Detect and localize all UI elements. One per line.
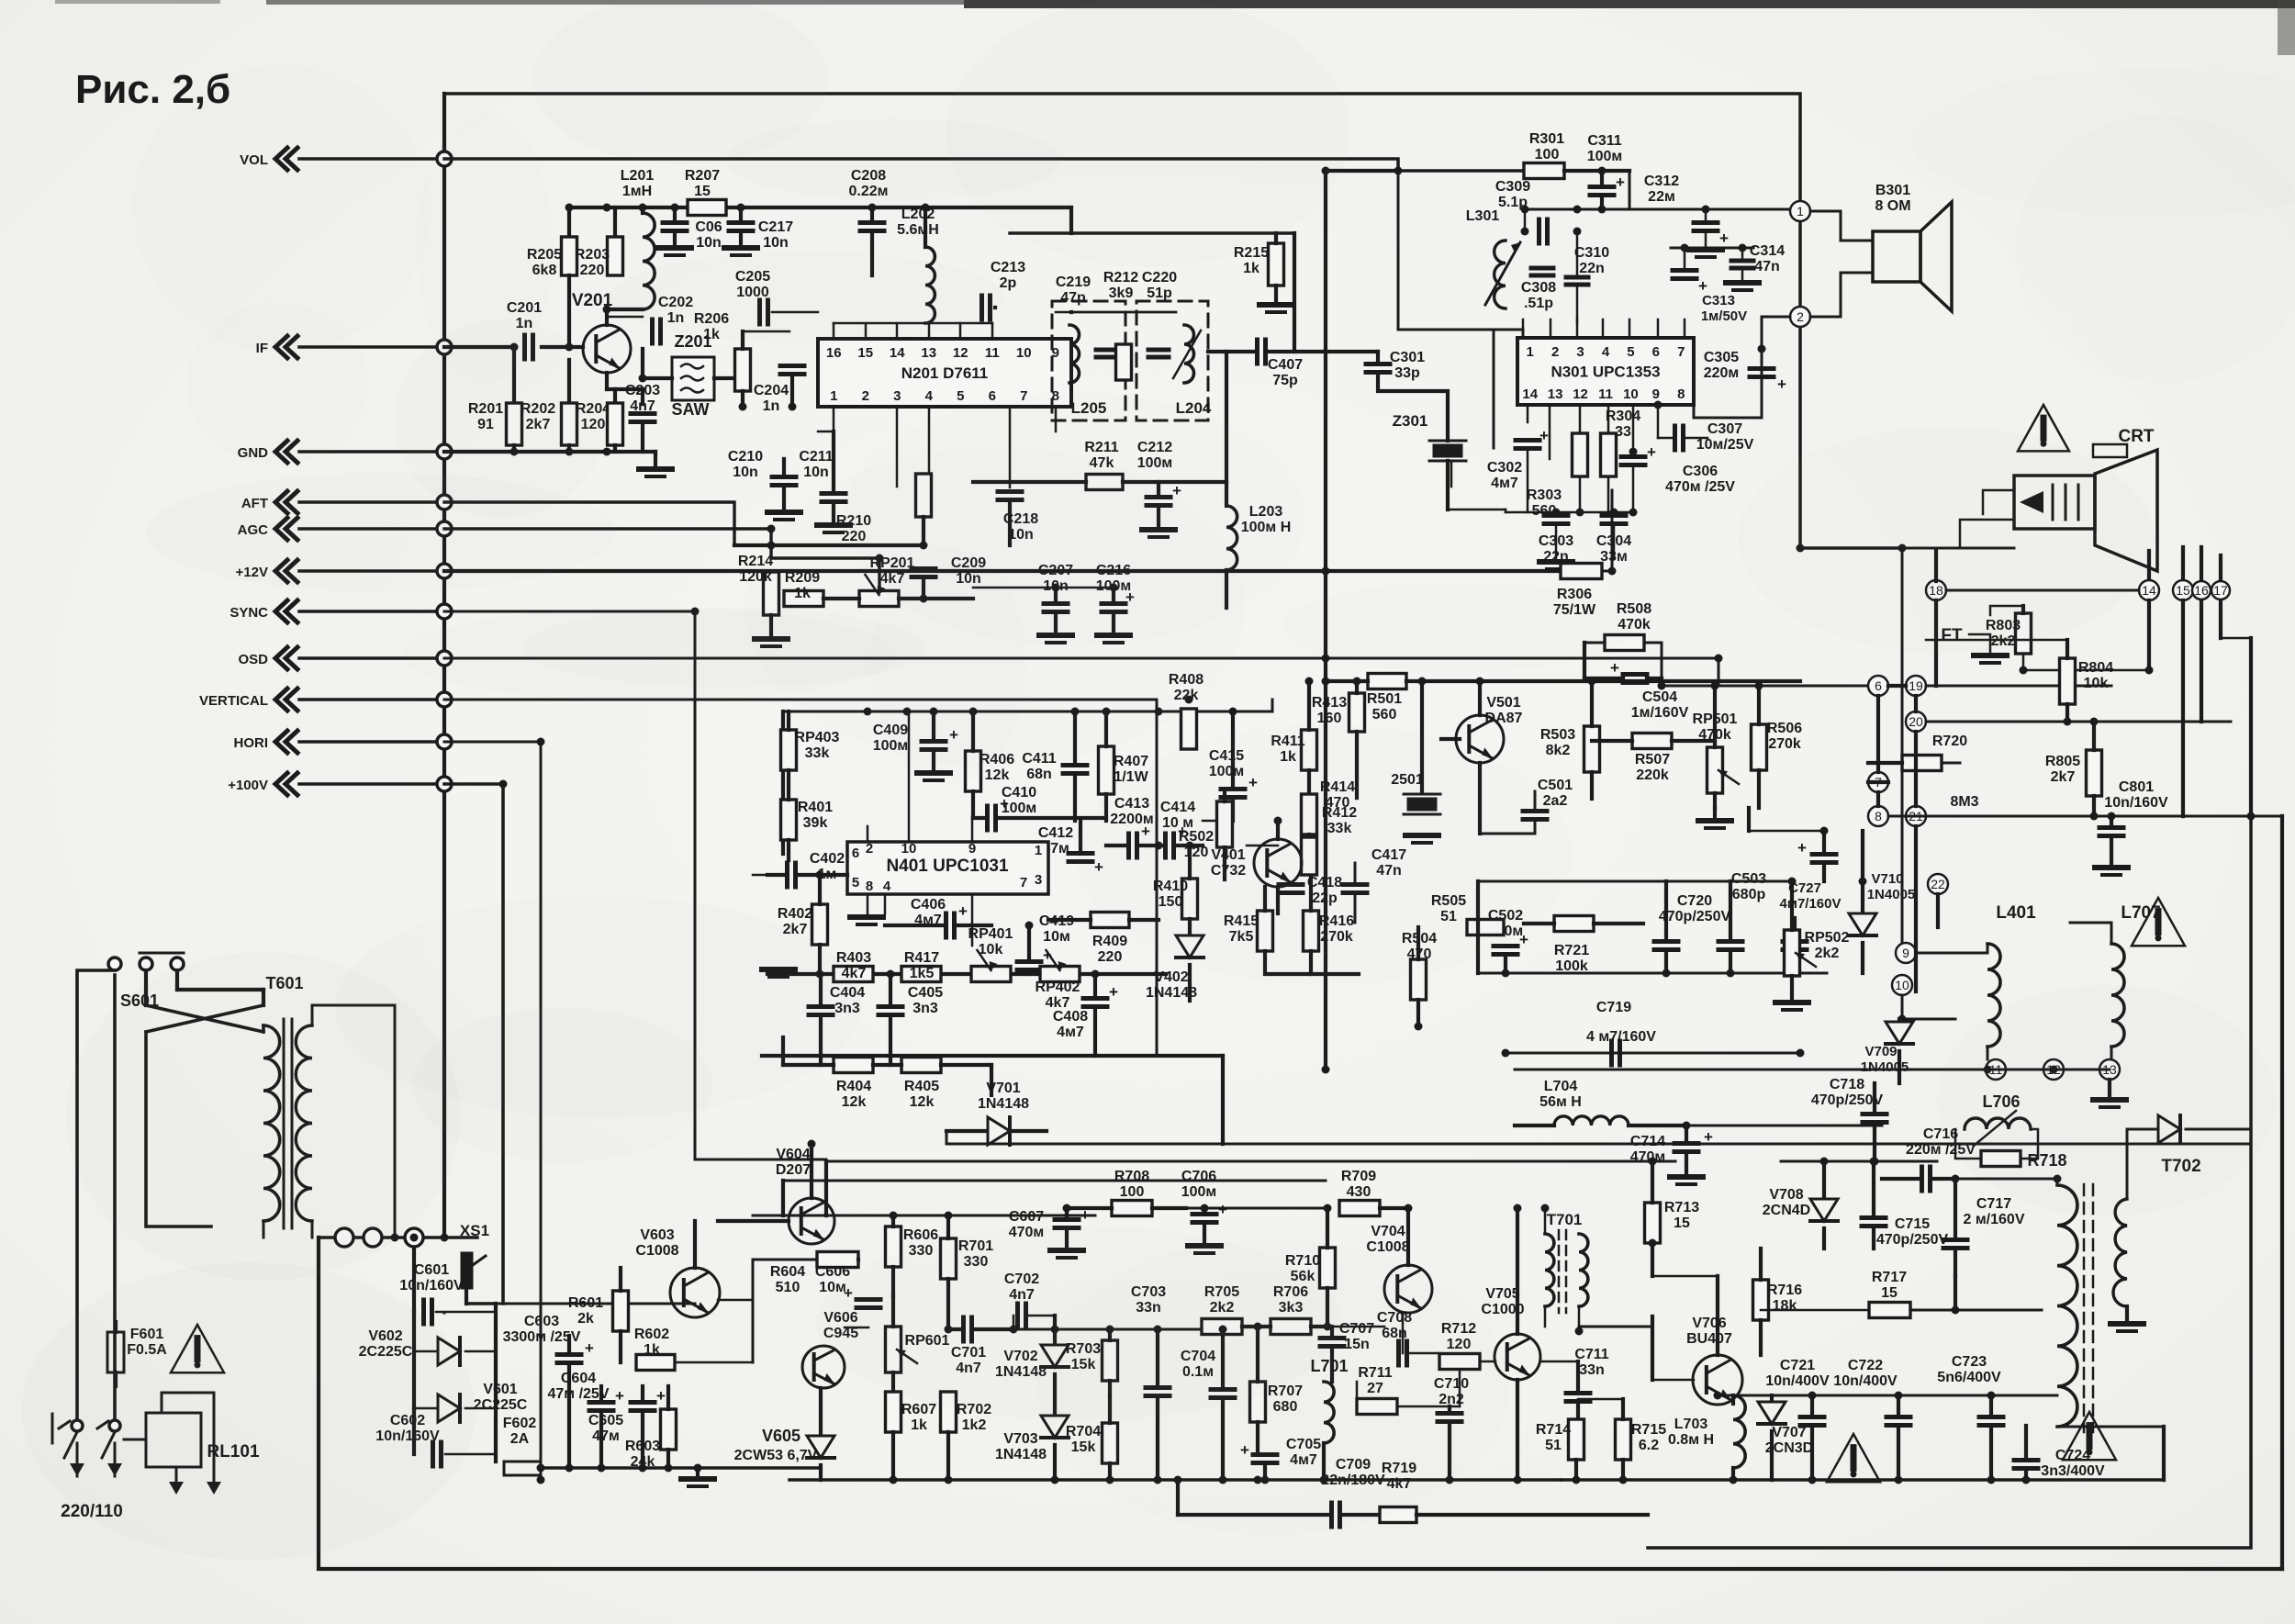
capacitor C203 (631, 411, 655, 416)
resistor R606 (886, 1226, 901, 1267)
svg-text:510: 510 (776, 1280, 800, 1295)
capacitor C701 (961, 1317, 966, 1341)
svg-text:2: 2 (866, 841, 873, 857)
svg-text:10: 10 (901, 841, 917, 857)
capacitor C208 (870, 207, 874, 220)
rectifier V601 V602 (412, 1248, 416, 1312)
node pin14 (2139, 580, 2159, 600)
wire audio gnd bus (1506, 511, 1633, 514)
port SYNC (275, 600, 287, 622)
capacitor C605 (631, 1400, 655, 1405)
resistor R409 (1091, 913, 1129, 928)
port +12V (275, 560, 287, 582)
svg-text:15: 15 (1674, 1215, 1690, 1231)
pot RP403 (781, 730, 797, 770)
capacitor C706 (1192, 1212, 1216, 1216)
resistor R405 (901, 1058, 941, 1073)
resistor R505 (1467, 920, 1504, 935)
wire mid join (1203, 820, 1233, 823)
svg-text:11: 11 (985, 345, 1000, 361)
wire C709 drop (1176, 1480, 1180, 1515)
svg-text:6: 6 (1875, 678, 1882, 693)
node pin21 (1906, 806, 1926, 826)
diode V709 (1886, 1022, 1913, 1044)
wire B+ row (496, 1303, 695, 1305)
wire tank inner rail (1056, 311, 1176, 314)
svg-text:470p/250V: 470p/250V (1876, 1232, 1949, 1248)
capacitor C408 (1083, 996, 1107, 1001)
wire top rail (444, 94, 1902, 548)
svg-text:R503: R503 (1540, 727, 1575, 743)
resistor R206 (714, 376, 734, 380)
resistor R708 (1112, 1201, 1152, 1216)
svg-text:33k: 33k (805, 745, 830, 761)
inductor L201 (643, 213, 655, 309)
wire N401 block bottom (762, 1054, 1223, 1058)
diode V702 (1041, 1345, 1069, 1367)
speaker B301 (1873, 231, 1920, 282)
resistor R416 (1304, 911, 1319, 951)
wire right border (946, 1131, 948, 1144)
svg-text:160: 160 (1317, 711, 1342, 726)
capacitor C705 (1253, 1452, 1277, 1457)
warning triangle hout1 (1827, 1434, 1880, 1482)
svg-text:1k5: 1k5 (910, 966, 935, 981)
capacitor C415 (1221, 787, 1245, 791)
svg-text:C1008: C1008 (1366, 1239, 1409, 1255)
capacitor C303 (1544, 513, 1568, 518)
svg-text:C314: C314 (1750, 243, 1785, 259)
svg-text:R716: R716 (1767, 1282, 1802, 1298)
resistor R507 (1632, 734, 1672, 749)
capacitor C503b (1783, 939, 1807, 944)
resistor R805 (2087, 750, 2102, 796)
svg-text:2k7: 2k7 (2051, 769, 2076, 785)
svg-text:2C225C: 2C225C (474, 1397, 528, 1413)
svg-text:100м: 100м (1002, 801, 1037, 816)
fuse F601 (107, 1332, 124, 1372)
resistor R706 (1271, 1319, 1311, 1335)
wire +12V rail (444, 569, 1558, 573)
diode V701 (988, 1117, 1010, 1145)
wire hout bottom rail (1561, 1478, 2164, 1482)
svg-text:RP401: RP401 (968, 926, 1013, 942)
svg-text:C312: C312 (1644, 174, 1679, 189)
svg-text:5n6/400V: 5n6/400V (1937, 1370, 2001, 1385)
node pin10 (1892, 975, 1912, 995)
wire AGC jog (444, 529, 879, 592)
resistor R413 (1349, 693, 1365, 732)
svg-text:C217: C217 (758, 219, 793, 235)
resistor R717 (1869, 1303, 1910, 1318)
capacitor C302 (1516, 438, 1539, 442)
wire scan artifact top (266, 0, 964, 5)
svg-text:C407: C407 (1268, 357, 1303, 373)
wire CRT base pins down (2147, 551, 2151, 579)
svg-text:2A: 2A (510, 1431, 530, 1447)
wire T601 secondary taps (312, 1005, 395, 1221)
capacitor C724 (2014, 1458, 2038, 1462)
svg-text:L201: L201 (621, 168, 655, 184)
svg-text:10n/400V: 10n/400V (1765, 1373, 1830, 1389)
svg-text:10n: 10n (733, 465, 758, 480)
inductor L401 (1987, 944, 2000, 1047)
paper texture (609, 252, 1005, 343)
resistor R604 (817, 1252, 858, 1268)
ground N401 pin5 (850, 914, 883, 920)
svg-text:220k: 220k (1636, 767, 1669, 783)
svg-text:4м7: 4м7 (1057, 1025, 1084, 1040)
svg-text:8 OM: 8 OM (1875, 198, 1910, 214)
svg-text:R602: R602 (634, 1327, 669, 1342)
wire speaker feed line (1525, 208, 1800, 211)
svg-text:R714: R714 (1536, 1422, 1571, 1438)
capacitor C702 (1015, 1304, 1020, 1327)
svg-text:D207: D207 (776, 1162, 811, 1178)
inductor L203 (1226, 506, 1237, 570)
resistor R402 (812, 904, 828, 945)
svg-text:680p: 680p (1732, 887, 1766, 902)
svg-text:C311: C311 (1587, 133, 1621, 149)
wire tank out rail (1010, 231, 1294, 234)
svg-text:Z301: Z301 (1393, 412, 1428, 430)
svg-text:10: 10 (1016, 345, 1032, 361)
capacitor C218 (998, 489, 1022, 494)
svg-text:4м7: 4м7 (1491, 476, 1518, 491)
capacitor C304 (1602, 513, 1626, 518)
svg-text:+: + (1109, 983, 1118, 1001)
resistor R602 (636, 1355, 675, 1371)
svg-text:C219: C219 (1056, 274, 1091, 290)
resistor R412 (1302, 837, 1317, 875)
svg-text:R805: R805 (2045, 754, 2080, 769)
wire hout top rail (1718, 1394, 2057, 1397)
resistor R410 (1182, 879, 1198, 919)
svg-text:2: 2 (862, 388, 869, 404)
inductor L704 (1554, 1116, 1629, 1126)
node pin6 (1868, 676, 1888, 696)
svg-text:C220: C220 (1142, 270, 1177, 286)
diode V707 (1758, 1402, 1786, 1424)
node pin19 (1906, 676, 1926, 696)
wire R708 feed (1186, 1207, 1327, 1210)
svg-text:C308: C308 (1521, 280, 1556, 296)
transistor V604 (789, 1198, 834, 1244)
svg-text:C305: C305 (1704, 350, 1739, 365)
wire audio input to pin1 (1494, 329, 1523, 331)
resistor R502 (1217, 801, 1233, 847)
wire CRT leads (1983, 490, 2014, 514)
svg-text:6.2: 6.2 (1639, 1438, 1659, 1453)
resistor R212 (1116, 344, 1132, 380)
svg-text:13: 13 (1548, 386, 1563, 402)
svg-text:8k2: 8k2 (1546, 743, 1571, 758)
svg-text:4м7/160V: 4м7/160V (1780, 896, 1842, 912)
svg-text:3k9: 3k9 (1109, 286, 1134, 301)
zener V605 (807, 1436, 834, 1458)
svg-text:33n: 33n (1579, 1362, 1605, 1378)
svg-text:C721: C721 (1780, 1358, 1815, 1373)
wire N401 internal bus (783, 700, 1272, 711)
svg-text:C402: C402 (810, 851, 845, 867)
svg-text:15: 15 (1881, 1285, 1898, 1301)
svg-text:9: 9 (1902, 946, 1909, 960)
capacitor C409 (922, 739, 946, 744)
resistor R203 (613, 207, 617, 237)
port AGC (275, 518, 287, 540)
svg-text:2k2: 2k2 (1815, 946, 1840, 961)
port IF (275, 336, 287, 358)
ground L707 (2108, 1080, 2111, 1098)
svg-text:R207: R207 (685, 168, 720, 184)
resistor R207 (688, 200, 726, 216)
inductor L706 (1965, 1118, 2031, 1129)
wire reg gnd bus (1478, 972, 1827, 975)
pot RP601 (886, 1327, 901, 1372)
svg-text:R804: R804 (2078, 660, 2113, 676)
svg-text:12: 12 (1573, 386, 1588, 402)
svg-text:5.6мH: 5.6мH (897, 222, 939, 238)
svg-text:+: + (1719, 230, 1729, 247)
resistor R210 (916, 474, 932, 517)
svg-text:12k: 12k (842, 1094, 867, 1110)
svg-text:220: 220 (580, 263, 605, 278)
wire V603 V604 links (693, 1221, 697, 1268)
inductor L202 (925, 247, 935, 323)
svg-text:2k: 2k (577, 1311, 594, 1327)
wire yoke bottom line (1515, 1069, 2110, 1071)
svg-text:14: 14 (890, 345, 905, 361)
capacitor C314 (1731, 259, 1753, 263)
wire tank top rail (1071, 311, 1176, 314)
svg-text:T701: T701 (1547, 1211, 1583, 1228)
capacitor C309 (1537, 219, 1541, 243)
wire V501 emitter to C501 (1478, 763, 1482, 834)
wire SYNC drop (444, 611, 695, 1159)
svg-text:BU407: BU407 (1686, 1331, 1732, 1347)
svg-text:R303: R303 (1527, 487, 1562, 503)
svg-text:C213: C213 (991, 260, 1025, 275)
svg-text:220: 220 (1098, 949, 1123, 965)
capacitor C704 (1211, 1387, 1235, 1392)
svg-text:8: 8 (866, 879, 873, 894)
svg-text:R203: R203 (575, 247, 610, 263)
resistor R404 (834, 1058, 873, 1073)
node pin22 (1928, 874, 1948, 894)
capacitor C720 (1654, 939, 1678, 944)
wire lines mid bottom (946, 1143, 2251, 1146)
ground RP501 (1713, 808, 1717, 819)
wire N201 bottom stubs (833, 407, 835, 431)
resistor R710 (1320, 1248, 1336, 1288)
node pin17 (2211, 581, 2230, 599)
svg-text:12k: 12k (910, 1094, 935, 1110)
svg-text:R409: R409 (1092, 934, 1127, 949)
wire mid power rail (753, 1215, 1095, 1217)
node main bus (442, 94, 446, 1238)
capacitor C306 (1621, 454, 1645, 459)
wire GND line right (444, 450, 655, 454)
wire IC feed (772, 311, 818, 314)
svg-text:10м/25V: 10м/25V (1696, 437, 1754, 453)
capacitor C716 (1920, 1167, 1924, 1191)
speaker line node 2 (1790, 307, 1810, 327)
capacitor C312 (1694, 220, 1718, 225)
svg-text:C714: C714 (1630, 1134, 1665, 1149)
svg-text:10м: 10м (1043, 929, 1070, 945)
wire pin9 10 wiring (1901, 548, 1904, 943)
svg-text:OSD: OSD (238, 652, 268, 667)
svg-text:C410: C410 (1002, 785, 1036, 801)
wire HORI drop (444, 742, 541, 1467)
wire audio in branch (1629, 171, 1631, 209)
resistor R202 (512, 347, 516, 403)
svg-text:220м: 220м (1704, 365, 1740, 381)
svg-text:R417: R417 (904, 950, 939, 966)
diode V708 (1810, 1199, 1838, 1221)
svg-text:R601: R601 (568, 1295, 603, 1311)
svg-text:14: 14 (2142, 583, 2156, 598)
svg-text:+: + (1610, 659, 1619, 677)
svg-text:22n: 22n (1579, 261, 1605, 276)
svg-text:V703: V703 (1003, 1431, 1037, 1447)
resistor R716 (1753, 1280, 1769, 1320)
svg-text:1мH: 1мH (622, 184, 652, 199)
svg-text:V705: V705 (1485, 1286, 1519, 1302)
resistor R417 (901, 967, 941, 982)
resistor R415 (1258, 911, 1273, 951)
svg-text:C06: C06 (695, 219, 722, 235)
svg-text:R402: R402 (778, 906, 812, 922)
svg-text:470p/250V: 470p/250V (1811, 1092, 1884, 1108)
svg-text:3: 3 (893, 388, 901, 404)
svg-text:V708: V708 (1769, 1187, 1803, 1203)
resistor R714 (1569, 1419, 1584, 1460)
capacitor C715 (1862, 1215, 1886, 1220)
svg-text:R721: R721 (1554, 943, 1589, 958)
wire mains switch bottom (72, 1420, 83, 1431)
svg-text:C306: C306 (1683, 464, 1718, 479)
wire L704 to V708 region (1686, 1125, 1882, 1127)
wire C207 C216 feed (973, 587, 1114, 589)
capacitor C204 (780, 364, 804, 368)
resistor R803 (2016, 613, 2032, 654)
node pin8b (1868, 806, 1888, 826)
wire T702 secondary (2127, 1129, 2158, 1199)
wire pin18 line (1946, 589, 2139, 592)
warning triangle near CRT (2018, 405, 2069, 451)
svg-text:R709: R709 (1341, 1169, 1376, 1184)
svg-text:10n: 10n (763, 235, 789, 251)
transistor V706 (1693, 1355, 1742, 1405)
svg-text:C606: C606 (815, 1264, 850, 1280)
capacitor C504 (1623, 672, 1647, 677)
svg-text:C313: C313 (1702, 293, 1735, 308)
wire +100V drop (444, 784, 503, 1304)
capacitor C213 (980, 296, 984, 319)
capacitor C604 (589, 1400, 613, 1405)
wire bus bottom to PSU (443, 1312, 446, 1315)
svg-text:100k: 100k (1555, 958, 1588, 974)
wire node2 to pin8 (1694, 317, 1790, 418)
IC N201 D7611 (818, 339, 1071, 407)
svg-text:15: 15 (694, 184, 711, 199)
node pin9 (1896, 943, 1916, 963)
resistor R411 (1302, 730, 1317, 770)
svg-text:N301 UPC1353: N301 UPC1353 (1551, 364, 1660, 381)
resistor R406 (966, 751, 981, 791)
svg-text:10n: 10n (803, 465, 829, 480)
resistor R713 (1645, 1203, 1661, 1243)
svg-text:+: + (1616, 174, 1625, 191)
svg-text:C720: C720 (1677, 893, 1712, 909)
svg-text:8: 8 (1875, 809, 1882, 823)
capacitor C305 (1750, 366, 1774, 371)
wire R404 row (783, 1063, 834, 1067)
capacitor C711 (1566, 1391, 1590, 1395)
svg-text:R606: R606 (903, 1227, 938, 1243)
resistor R211 (1086, 475, 1123, 490)
svg-text:470м /25V: 470м /25V (1665, 479, 1735, 495)
capacitor C308 (1531, 266, 1553, 271)
svg-text:C307: C307 (1707, 421, 1742, 437)
svg-text:4: 4 (1602, 344, 1610, 360)
svg-text:R405: R405 (904, 1079, 939, 1094)
resistor R205 (567, 207, 571, 237)
svg-text:10n/160V: 10n/160V (399, 1278, 464, 1294)
svg-text:+: + (958, 902, 968, 920)
node pin13 (2099, 1059, 2120, 1080)
svg-text:C301: C301 (1390, 350, 1425, 365)
capacitor C217 (739, 207, 743, 220)
node pin7 (1868, 772, 1888, 792)
svg-text:15: 15 (2176, 583, 2190, 598)
svg-text:C1008: C1008 (635, 1243, 678, 1259)
svg-text:1N4005: 1N4005 (1867, 887, 1916, 902)
speaker line node 1 (1790, 201, 1810, 221)
capacitor C414 (1163, 834, 1168, 857)
svg-text:33: 33 (1615, 424, 1631, 440)
svg-text:10k: 10k (2084, 676, 2109, 691)
capacitor C202 (650, 319, 655, 343)
svg-text:1k: 1k (1243, 261, 1259, 276)
resistor R204 (567, 360, 571, 403)
svg-text:100: 100 (1120, 1184, 1145, 1200)
svg-text:1: 1 (830, 388, 837, 404)
svg-text:1м/160V: 1м/160V (1631, 705, 1689, 721)
svg-text:.51p: .51p (1524, 296, 1553, 311)
svg-text:R715: R715 (1631, 1422, 1666, 1438)
svg-text:16: 16 (2194, 583, 2209, 598)
wire N401 pin stubs (867, 826, 869, 842)
wire C719 line (1506, 1052, 1800, 1055)
svg-text:10n/400V: 10n/400V (1833, 1373, 1898, 1389)
wire hout row (1781, 1160, 1937, 1163)
wire V705 out (1540, 1361, 1578, 1363)
capacitor C718 (1863, 1112, 1886, 1116)
capacitor C709 (1329, 1503, 1334, 1527)
capacitor C413 (1126, 834, 1131, 857)
resistor R603 (661, 1409, 677, 1450)
capacitor C404 (809, 1004, 833, 1009)
node pin16 (2192, 581, 2211, 599)
resistor R401 (781, 800, 797, 840)
svg-text:C406: C406 (911, 897, 946, 913)
capacitor C721 (1800, 1415, 1824, 1419)
junction dots (565, 204, 574, 212)
port +100V (275, 773, 287, 795)
wire transformer out row (319, 1236, 477, 1239)
